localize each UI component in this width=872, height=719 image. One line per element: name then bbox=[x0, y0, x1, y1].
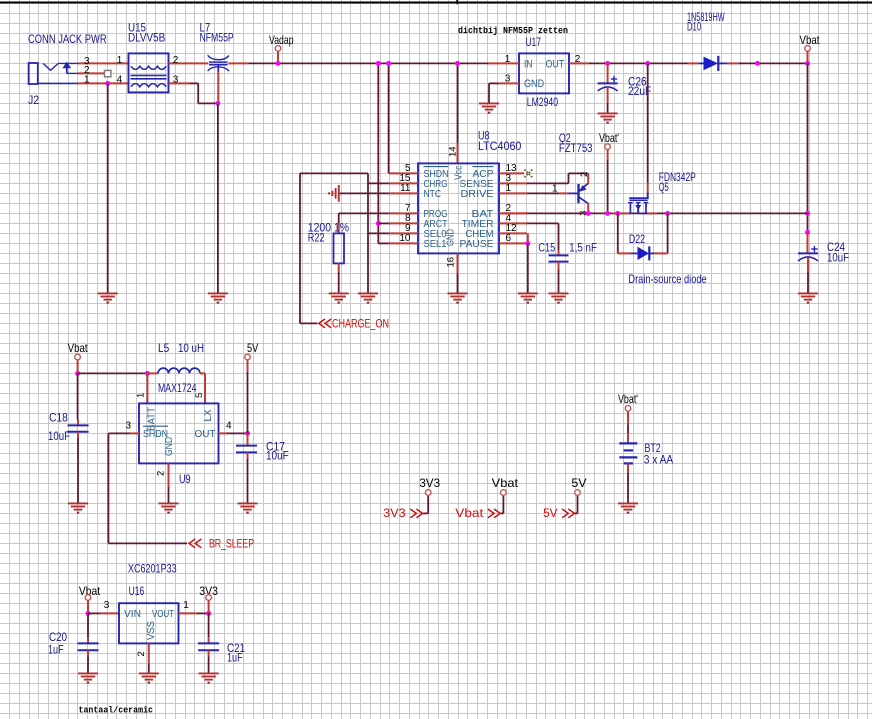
svg-text:IN: IN bbox=[524, 59, 532, 71]
svg-text:1: 1 bbox=[183, 600, 189, 611]
svg-text:1uF: 1uF bbox=[227, 651, 243, 665]
svg-text:14: 14 bbox=[448, 146, 459, 157]
svg-text:U17: U17 bbox=[525, 35, 541, 49]
svg-text:FZT753: FZT753 bbox=[559, 141, 593, 155]
svg-text:3V3: 3V3 bbox=[383, 508, 406, 520]
svg-text:GND: GND bbox=[524, 78, 544, 90]
svg-text:C18: C18 bbox=[49, 411, 68, 425]
svg-text:2: 2 bbox=[579, 172, 590, 177]
svg-text:10uF: 10uF bbox=[827, 251, 849, 265]
svg-text:DLVV5B: DLVV5B bbox=[128, 31, 165, 45]
svg-text:5V: 5V bbox=[571, 476, 586, 490]
svg-text:2: 2 bbox=[575, 54, 581, 65]
svg-text:2: 2 bbox=[136, 651, 147, 656]
svg-text:5V: 5V bbox=[247, 341, 258, 355]
svg-text:LTC4060: LTC4060 bbox=[478, 139, 522, 153]
svg-text:10: 10 bbox=[399, 233, 411, 244]
svg-text:J2: J2 bbox=[28, 93, 39, 107]
svg-text:L5: L5 bbox=[158, 341, 169, 355]
svg-text:NTC: NTC bbox=[424, 188, 442, 200]
svg-text:Q5: Q5 bbox=[659, 180, 669, 194]
svg-text:1uF: 1uF bbox=[48, 643, 64, 657]
svg-text:D10: D10 bbox=[687, 20, 701, 34]
svg-text:5V: 5V bbox=[543, 508, 558, 520]
svg-text:LM2940: LM2940 bbox=[527, 95, 558, 109]
svg-text:3: 3 bbox=[505, 74, 511, 85]
svg-text:3V3: 3V3 bbox=[419, 476, 440, 490]
svg-text:XC6201P33: XC6201P33 bbox=[128, 562, 177, 576]
svg-text:3: 3 bbox=[125, 420, 131, 431]
svg-text:OUT: OUT bbox=[195, 428, 217, 440]
svg-text:Vcc: Vcc bbox=[454, 166, 465, 181]
svg-text:GND: GND bbox=[446, 229, 457, 246]
svg-text:1: 1 bbox=[84, 75, 90, 86]
svg-text:11: 11 bbox=[400, 183, 411, 194]
svg-text:Vbat: Vbat bbox=[800, 33, 821, 47]
svg-text:10 uH: 10 uH bbox=[178, 341, 204, 355]
svg-text:MAX1724: MAX1724 bbox=[158, 381, 197, 395]
svg-text:PAUSE: PAUSE bbox=[460, 238, 494, 250]
svg-text:Drain-source diode: Drain-source diode bbox=[628, 272, 707, 286]
svg-text:Vbat: Vbat bbox=[492, 476, 519, 490]
svg-text:dichtbij NFM55P zetten: dichtbij NFM55P zetten bbox=[458, 25, 568, 36]
svg-text:NFM55P: NFM55P bbox=[200, 31, 234, 45]
svg-text:DRIVE: DRIVE bbox=[461, 188, 494, 200]
svg-text:BR_SLEEP: BR_SLEEP bbox=[209, 538, 254, 550]
svg-text:2: 2 bbox=[156, 471, 167, 476]
svg-text:VIN: VIN bbox=[124, 608, 141, 620]
svg-text:16: 16 bbox=[446, 257, 457, 268]
svg-text:tantaal/ceramic: tantaal/ceramic bbox=[79, 705, 154, 716]
svg-text:10uF: 10uF bbox=[266, 449, 289, 463]
svg-text:OUT: OUT bbox=[546, 59, 565, 71]
svg-text:1: 1 bbox=[505, 54, 511, 65]
svg-text:10uF: 10uF bbox=[48, 429, 70, 443]
svg-text:GND: GND bbox=[164, 437, 175, 456]
svg-text:4: 4 bbox=[117, 75, 123, 86]
svg-text:R22: R22 bbox=[308, 230, 325, 244]
svg-text:CONN JACK PWR: CONN JACK PWR bbox=[28, 32, 107, 46]
svg-text:4: 4 bbox=[226, 420, 232, 431]
svg-text:3: 3 bbox=[104, 600, 110, 611]
svg-text:LX: LX bbox=[203, 409, 214, 421]
svg-text:VOUT: VOUT bbox=[152, 608, 174, 620]
svg-text:Vbat': Vbat' bbox=[618, 392, 638, 406]
svg-text:U16: U16 bbox=[129, 584, 145, 598]
svg-text:1: 1 bbox=[117, 55, 123, 66]
svg-text:Vbat: Vbat bbox=[455, 508, 484, 520]
svg-text:2: 2 bbox=[173, 55, 179, 66]
svg-text:CHARGE_ON: CHARGE_ON bbox=[332, 319, 389, 331]
svg-text:VSS: VSS bbox=[146, 621, 157, 640]
svg-text:1: 1 bbox=[552, 183, 558, 194]
svg-text:U9: U9 bbox=[179, 472, 191, 486]
svg-text:D22: D22 bbox=[629, 232, 645, 246]
svg-text:6: 6 bbox=[506, 233, 512, 244]
svg-text:3 x AA: 3 x AA bbox=[644, 452, 673, 466]
svg-text:1,5 nF: 1,5 nF bbox=[569, 241, 597, 255]
svg-text:Vbat': Vbat' bbox=[599, 131, 619, 145]
svg-text:C15: C15 bbox=[538, 241, 555, 255]
svg-text:Vadap: Vadap bbox=[269, 33, 294, 47]
svg-text:SEL1: SEL1 bbox=[424, 238, 447, 250]
svg-text:3: 3 bbox=[173, 75, 179, 86]
svg-text:1: 1 bbox=[506, 183, 512, 194]
svg-text:Vbat: Vbat bbox=[68, 341, 89, 355]
svg-text:1: 1 bbox=[136, 393, 147, 398]
